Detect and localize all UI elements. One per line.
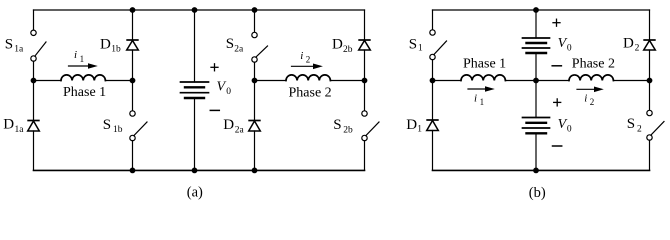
wire D1b to phase node (132, 50, 134, 81)
inductor Phase 1 (b) (461, 75, 505, 81)
wire top rail (b) (433, 9, 650, 11)
wire phase line segment 3 (b) (536, 80, 569, 82)
svg-text:1b: 1b (111, 45, 121, 55)
svg-text:1a: 1a (15, 125, 25, 135)
node bottom rail battery (b) (533, 168, 539, 174)
label D1b (100, 37, 121, 55)
wire S1b to bottom rail (132, 141, 134, 171)
node bottom rail S1b (a) (130, 168, 136, 174)
wire node to D2a (254, 81, 256, 121)
svg-text:2: 2 (637, 124, 642, 134)
svg-text:1: 1 (480, 97, 485, 107)
wire D1a to bottom rail (33, 131, 35, 170)
node bottom rail battery (a) (192, 168, 198, 174)
svg-text:i: i (300, 50, 303, 62)
wire phase line segment 4 (b) (613, 80, 649, 82)
svg-text:(a): (a) (187, 184, 203, 200)
svg-text:S: S (226, 36, 234, 52)
switch S1 (430, 30, 447, 60)
wire phase1 line left segment (a) (34, 80, 62, 82)
plus sign battery lower (b) (554, 99, 561, 106)
node top rail S2a (a) (252, 7, 258, 13)
label V0 upper (b) (558, 36, 572, 53)
wire D2a to bottom rail (254, 131, 256, 170)
svg-text:Phase 1: Phase 1 (63, 85, 106, 100)
svg-text:S: S (409, 37, 417, 53)
svg-text:Phase 2: Phase 2 (572, 56, 615, 71)
minus sign battery (a) (210, 109, 219, 111)
svg-text:V: V (217, 80, 227, 95)
label S2b (333, 117, 353, 136)
svg-text:1: 1 (418, 44, 423, 54)
inductor Phase 2 (a) (286, 75, 330, 81)
label D2a (223, 117, 244, 135)
svg-text:1: 1 (80, 54, 85, 64)
label i2 (a) (300, 50, 310, 65)
switch S2b (362, 111, 379, 141)
svg-text:0: 0 (567, 124, 572, 134)
wire battery to bottom rail (a) (194, 98, 196, 170)
svg-text:S: S (5, 37, 13, 53)
wire node to S1b (132, 81, 134, 111)
current arrow i2 (a) (292, 64, 323, 70)
label D1 (406, 117, 422, 135)
svg-text:D: D (406, 117, 417, 133)
battery V0 (a) (181, 82, 209, 98)
svg-text:1b: 1b (113, 125, 123, 135)
wire phase line segment 1 (b) (433, 80, 462, 82)
wire S1 to node (b) (432, 60, 434, 81)
svg-text:0: 0 (226, 87, 231, 97)
switch S1a (31, 30, 46, 61)
svg-text:S: S (103, 117, 111, 133)
svg-text:Phase 1: Phase 1 (463, 56, 506, 71)
node top rail D1b (a) (130, 7, 136, 13)
switch S2a (252, 32, 268, 62)
diode D2 (643, 40, 655, 50)
plus sign battery upper (b) (553, 19, 560, 26)
wire left column top (b) (432, 10, 434, 30)
svg-text:i: i (474, 92, 477, 104)
svg-text:D: D (223, 117, 234, 133)
wire right column top (b) (649, 10, 651, 40)
wire phase node to battery 2 (b) (535, 81, 537, 118)
svg-text:0: 0 (567, 43, 572, 53)
node phase line left (b) (430, 78, 436, 84)
node top rail battery (b) (533, 7, 539, 13)
svg-text:2b: 2b (343, 126, 353, 136)
wire node to S2b (364, 81, 366, 111)
svg-text:1a: 1a (14, 44, 24, 54)
label i2 (b) (584, 92, 594, 107)
current arrow i2 (b) (577, 87, 604, 93)
svg-text:(b): (b) (529, 185, 546, 201)
wire S2 to bottom rail (649, 140, 651, 170)
svg-text:D: D (100, 37, 111, 53)
svg-text:2: 2 (306, 55, 311, 65)
diode D2a (248, 121, 260, 132)
wire D2b to phase node (364, 50, 366, 81)
wire S2b to bottom rail (364, 141, 366, 171)
wire top rail to D1b (132, 10, 134, 40)
wire D1 to bottom rail (432, 131, 434, 171)
minus sign battery lower (b) (553, 145, 562, 147)
wire node to D1 (432, 81, 434, 120)
label S1 (409, 37, 423, 54)
svg-text:S: S (627, 116, 635, 132)
label i1 (b) (474, 92, 484, 107)
label i1 (a) (74, 49, 84, 64)
svg-text:2a: 2a (235, 125, 245, 135)
svg-text:i: i (74, 49, 77, 61)
wire S1a to node (a) (33, 61, 35, 80)
battery V0 lower (b) (523, 118, 550, 134)
svg-text:D: D (332, 37, 343, 53)
wire top rail to S2a (254, 10, 256, 32)
node phase line battery (b) (533, 78, 539, 84)
svg-text:2: 2 (635, 43, 640, 53)
svg-text:Phase 2: Phase 2 (289, 85, 332, 100)
diode D2b (358, 40, 370, 50)
wire right column top (a) (364, 10, 366, 40)
wire battery 1 to phase node (b) (535, 53, 537, 81)
svg-text:D: D (3, 117, 14, 133)
svg-text:S: S (333, 117, 341, 133)
wire node to D1a (33, 81, 35, 121)
svg-text:2: 2 (590, 97, 595, 107)
label S2a (226, 36, 244, 54)
wire node to S2 (649, 81, 651, 111)
svg-text:D: D (623, 36, 634, 52)
node top rail battery (a) (192, 7, 198, 13)
node bottom rail D2a (a) (252, 168, 258, 174)
wire top rail to battery 1 (b) (535, 10, 537, 38)
minus sign battery upper (b) (552, 65, 561, 67)
svg-text:1: 1 (417, 125, 422, 135)
label D2b (332, 37, 353, 55)
wire phase2 line right segment (a) (330, 80, 364, 82)
wire phase1 line right segment (a) (105, 80, 132, 82)
diode D1 (426, 120, 438, 131)
wire S2a to node (254, 62, 256, 80)
label S1a (5, 37, 24, 55)
wire D2 to phase node (649, 50, 651, 81)
node phase2 right (a) (362, 78, 368, 84)
current arrow i1 (b) (468, 86, 495, 92)
label V0 (a) (217, 80, 232, 97)
svg-text:2b: 2b (343, 45, 353, 55)
wire phase2 line left segment (a) (255, 80, 287, 82)
svg-text:2a: 2a (234, 44, 244, 54)
wire left column top (a) (33, 10, 35, 30)
switch S1b (130, 111, 147, 141)
svg-text:i: i (584, 92, 587, 104)
label D2 (623, 36, 640, 54)
diode D1b (126, 40, 138, 50)
label S2 (627, 116, 642, 134)
node phase2 left (a) (252, 78, 258, 84)
inductor Phase 1 (a) (61, 75, 105, 81)
wire top rail (a) (34, 9, 365, 11)
node phase1 left (a) (31, 78, 37, 84)
wire top rail to battery (a) (194, 10, 196, 82)
label V0 lower (b) (558, 117, 572, 135)
wire battery 2 to bottom rail (b) (535, 133, 537, 170)
wire bottom rail (b) (433, 169, 650, 171)
plus sign battery (a) (211, 64, 218, 71)
label S1b (103, 117, 123, 135)
inductor Phase 2 (b) (569, 75, 613, 81)
wire bottom rail (a) (34, 169, 365, 171)
switch S2 (647, 110, 664, 140)
current arrow i1 (a) (69, 63, 98, 69)
diode D1a (27, 121, 39, 132)
label D1a (3, 117, 24, 135)
node phase line right (b) (647, 78, 653, 84)
wire phase line segment 2 (b) (505, 80, 536, 82)
node phase1 right (a) (130, 78, 136, 84)
battery V0 upper (b) (523, 38, 550, 53)
